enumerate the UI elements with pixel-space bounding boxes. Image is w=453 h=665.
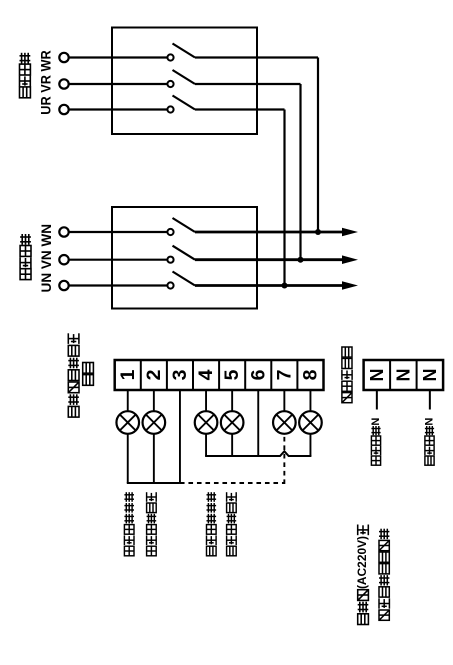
svg-text:3: 3: [169, 369, 191, 380]
svg-text:4: 4: [195, 369, 217, 380]
svg-text:N: N: [424, 418, 436, 426]
svg-text:8: 8: [299, 369, 321, 380]
svg-text:2: 2: [143, 369, 165, 380]
svg-text:UR VR WR: UR VR WR: [37, 50, 53, 115]
svg-text:5: 5: [221, 369, 243, 380]
svg-text:N: N: [370, 418, 382, 426]
svg-text:N: N: [367, 369, 387, 382]
svg-text:7: 7: [273, 370, 295, 381]
svg-text:UN VN WN: UN VN WN: [38, 224, 54, 293]
svg-text:N: N: [420, 369, 440, 382]
svg-text:(AC220V): (AC220V): [357, 536, 369, 589]
svg-text:6: 6: [247, 369, 269, 380]
svg-text:N: N: [393, 369, 413, 382]
svg-text:1: 1: [117, 369, 139, 380]
